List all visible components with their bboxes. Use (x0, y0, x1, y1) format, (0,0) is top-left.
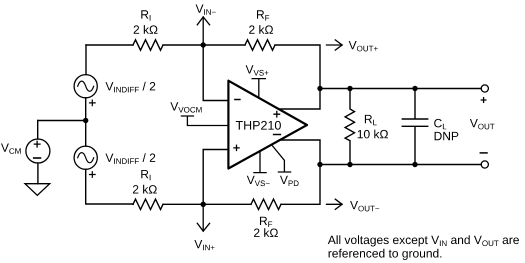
op-amp inverting input minus mark (235, 99, 240, 101)
wire VOUT+ arrow (327, 44, 343, 46)
terminal minus mark (480, 152, 487, 154)
label VVS- (247, 176, 270, 186)
label VINDIFF upper (106, 82, 156, 93)
node junction VIN+ (201, 202, 206, 207)
op-amp U1 THP210 triangle (228, 81, 307, 169)
wire noninverting input (203, 150, 228, 205)
label RF top (257, 10, 269, 20)
source 1 plus mark (90, 100, 96, 106)
node junction RL bottom (347, 162, 352, 167)
label VVS+ (246, 65, 269, 75)
node junction VIN- (201, 42, 206, 47)
label RI bottom value (133, 185, 157, 194)
wire top rail mid segment (163, 44, 245, 46)
wire VIN+ arrow (202, 204, 204, 231)
node junction CL top (412, 86, 417, 91)
wire VVS- pin (254, 151, 266, 173)
op-amp output plus mark (274, 111, 280, 117)
label RF bottom value (254, 228, 278, 237)
op-amp output minus mark (274, 134, 281, 136)
ground (25, 184, 50, 196)
wire bottom rail mid segment (163, 203, 251, 205)
label VIN+ (194, 240, 214, 250)
label CL DNP (435, 132, 459, 140)
wire output minus rail (320, 164, 481, 166)
label VIN- (196, 5, 216, 15)
label VPD (280, 176, 299, 186)
label RI bottom (141, 170, 150, 180)
label RI top value (134, 25, 158, 34)
op-amp noninverting input plus mark (234, 145, 239, 150)
node junction left (83, 118, 88, 123)
resistor RL vertical (345, 89, 354, 165)
wire left branch down to source 1 (85, 45, 87, 75)
terminal VOUT minus circle (481, 161, 488, 168)
wire VVS+ pin (252, 79, 265, 99)
wire bottom rail right segment to feedback corner (281, 165, 320, 205)
wire VOUT- arrow (327, 203, 343, 205)
capacitor CL (402, 89, 427, 165)
label RI top (141, 10, 150, 20)
wire source 2 to bottom rail (86, 169, 133, 204)
wire VCM branch horizontal (38, 120, 86, 122)
wire VCM branch vertical (37, 121, 39, 140)
label VVOCM (170, 102, 201, 112)
label VOUT- (350, 201, 379, 211)
node junction RL top (347, 86, 352, 91)
wire VPD pin (273, 146, 291, 172)
terminal plus mark (481, 98, 486, 103)
wire top rail left segment (86, 44, 133, 46)
resistor RI bottom zigzag (133, 199, 163, 209)
wire between sources (85, 98, 87, 146)
terminal VOUT plus circle (481, 85, 488, 92)
wire VCM to ground (37, 163, 39, 184)
node junction output plus feedback (317, 86, 322, 91)
source 2 plus mark (90, 172, 96, 178)
node junction output minus feedback (317, 162, 322, 167)
label VCM (1, 144, 21, 154)
label THP210 (236, 121, 281, 130)
node junction CL bottom (412, 162, 417, 167)
label VOUT+ (349, 41, 378, 51)
label RL value (358, 130, 388, 139)
source V_INDIFF/2 upper circle (74, 75, 97, 98)
source V_INDIFF/2 lower circle (74, 146, 97, 169)
label CL (434, 119, 446, 129)
label VOUT (470, 119, 495, 129)
label RF bottom (260, 217, 272, 227)
note text line 2 (329, 249, 442, 260)
resistor RF top zigzag (245, 40, 275, 50)
resistor RI top zigzag (133, 40, 163, 50)
wire top rail right segment to feedback corner (275, 45, 320, 89)
note text line 1 (328, 235, 519, 246)
source VCM circle (26, 139, 50, 163)
label RL (365, 115, 377, 125)
wire output minus from op-amp (279, 140, 320, 165)
wire VIN- arrow (202, 17, 204, 45)
label RF top value (249, 25, 273, 34)
wire output plus from op-amp (279, 89, 320, 110)
wire output plus rail (320, 88, 481, 90)
wire inverting input (203, 45, 228, 101)
VCM minus mark (34, 157, 41, 159)
wire VOCM connector (181, 116, 228, 126)
label VINDIFF lower (106, 153, 156, 164)
VCM plus mark (34, 141, 40, 147)
wire bottom rail RI segment (132, 203, 134, 205)
resistor RF bottom zigzag (251, 199, 281, 209)
